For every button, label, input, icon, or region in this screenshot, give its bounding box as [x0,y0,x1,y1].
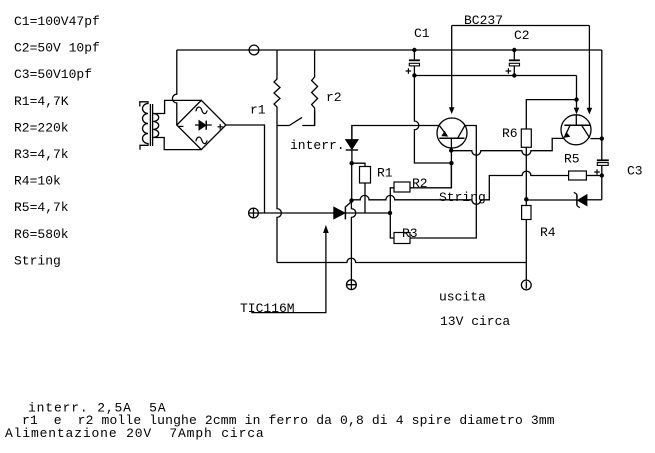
svg-text:C1=100V47pf: C1=100V47pf [14,14,100,29]
wire C1 bottom down to Q1 base (hop over emitter wire) [414,75,451,163]
svg-text:String: String [14,253,61,268]
svg-text:r1: r1 [250,103,266,118]
svg-text:C2=50V 10pf: C2=50V 10pf [14,41,100,56]
svg-text:R6: R6 [502,126,518,141]
node junction diode / R1 [350,161,354,165]
svg-text:BC237: BC237 [464,13,503,28]
capacitor C1 [413,50,415,59]
wire Q1 emitter from diode top corner [352,126,439,140]
annotation TIC116M pointer line [251,233,326,313]
wire top rail right drop to C3 [601,50,603,160]
node collector/rail junction [600,136,604,140]
resistor R1 [352,163,365,166]
node C2 top [512,48,516,52]
spring r2 [312,50,318,126]
wire C2 network down to Q2 base node [576,76,578,100]
node minus terminal [249,45,259,55]
svg-text:R2=220k: R2=220k [14,120,69,135]
svg-text:R5=4,7k: R5=4,7k [14,200,69,215]
svg-text:String: String [439,190,486,205]
wire SCR cathode to node [345,212,389,214]
capacitor C3 [597,159,609,161]
node Q1 base top junction [449,148,453,152]
svg-text:R4=10k: R4=10k [14,174,61,189]
spring r1 [274,50,280,126]
svg-text:uscita: uscita [439,290,486,305]
svg-text:r2: r2 [326,90,342,105]
bridge plus sign [218,124,224,130]
node zener/R4 junction [524,197,528,201]
svg-text:C1: C1 [414,26,430,41]
wire zener cathode to R4 node [526,199,577,201]
resistor R3 [394,233,410,244]
svg-text:R6=580k: R6=580k [14,227,69,242]
wire bottom rail (hop over output line) [277,258,526,262]
svg-text:R3=4,7k: R3=4,7k [14,147,69,162]
svg-text:R2: R2 [412,176,428,191]
bridge diode symbol [195,124,212,126]
svg-text:R1=4,7K: R1=4,7K [14,94,69,109]
resistor R2 [394,182,410,192]
wire Q2 collector to right column [590,138,601,140]
svg-text:R1: R1 [377,166,393,181]
resistor R4 [522,206,531,220]
wire main positive y=213 from terminal to SCR [259,212,334,214]
wire base node left to R6 [526,100,576,129]
bridge AC tilde bottom [196,137,207,144]
wire secondary bottom to bridge AC bottom [153,138,201,150]
switch interr. [277,111,315,126]
bridge minus sign [178,125,184,127]
transformer T1 secondary winding [153,114,159,138]
node Q1 base lower junction [449,161,453,165]
wire Q1 base lead down to R2 [450,150,452,187]
node C2 bottom [512,73,516,77]
svg-text:C2: C2 [514,28,530,43]
bridge rectifier diamond [177,100,226,149]
svg-text:R3: R3 [402,226,418,241]
node C1 top [412,48,416,52]
transformer T1 primary winding [140,102,148,150]
wire Q1 to Q2 emitter (hops over collector line and R6 lead) [451,138,564,155]
svg-text:Alimentazione 20V 7Amph circa: Alimentazione 20V 7Amph circa [5,426,265,441]
resistor R5 [569,171,587,180]
transistor Q1 BC237 [437,118,467,148]
transistor Q2 BC237 [561,115,591,145]
wire gate node vertical down to output terminal (hops) [351,201,355,280]
resistor R6 [521,129,531,147]
node SCR gate junction [349,198,353,202]
node output terminal (circle with bar) [521,280,531,290]
zener diode DZ [587,199,602,201]
wire bridge DC- up to top rail (hop over AC wire) [172,50,176,125]
wire top rail [177,49,602,51]
node C1 bottom [412,73,416,77]
parts list text column [14,14,100,268]
wire bridge DC+ right and down [226,125,265,213]
node plus terminal left [249,208,259,218]
arrow into Q2 base [576,100,578,108]
bridge AC tilde top [196,107,207,114]
wire C1 bottom to C2 bottom to Q2 base line [414,75,576,77]
SCR TIC116M [334,207,345,219]
svg-text:R4: R4 [540,225,556,240]
wire gate to R5 (hops over R1 lead, R2 lead, collector line) [352,171,569,204]
transformer T1 core [150,104,152,146]
node Q2 base net [574,97,578,101]
wire secondary top to bridge AC top [153,100,201,113]
node main wire / R2R3 junction [388,211,392,215]
annotation BC237 pointer lines [452,26,590,109]
svg-text:C3=50V10pf: C3=50V10pf [14,67,92,82]
node C3 bottom [600,173,604,177]
svg-text:C3: C3 [627,164,643,179]
capacitor C2 [513,50,515,59]
node plus output terminal [347,280,357,290]
wire R6 bottom down through to R4 [525,147,527,205]
diode D1 [351,126,353,140]
SCR gate lead [345,202,351,207]
wire r1 bottom down to bottom rail (hop over main wire) [277,126,281,263]
svg-text:TIC116M: TIC116M [240,301,295,316]
svg-text:13V circa: 13V circa [440,314,510,329]
svg-text:R5: R5 [564,152,580,167]
svg-text:interr.: interr. [290,138,345,153]
